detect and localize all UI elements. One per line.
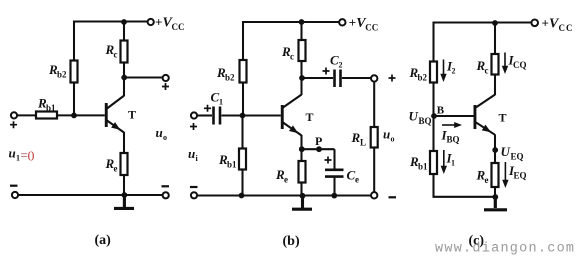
transistor collector diagonal (c) [476, 95, 495, 108]
wire Ce vertical lower (b) [333, 178, 335, 195]
minus sign output (a) [162, 185, 170, 187]
svg-text:P: P [315, 134, 322, 148]
label +Vcc (b) [349, 15, 379, 33]
ground symbol (a) [114, 196, 134, 208]
svg-text:CC: CC [559, 23, 574, 33]
node rail junction (a) [121, 19, 127, 25]
resistor Re (a) [121, 153, 128, 175]
svg-text:T: T [128, 108, 136, 122]
svg-text:L: L [360, 138, 366, 148]
svg-text:b1: b1 [227, 160, 237, 170]
wire emitter vertical (a) [123, 132, 125, 153]
capacitor C1 (b) [214, 107, 221, 125]
resistor Rc (b) [299, 40, 306, 61]
ground symbol (b) [292, 197, 312, 209]
wire emitter vertical (b) [300, 135, 302, 149]
wire top rail (b) [243, 21, 340, 23]
terminal output bottom circle (a) [163, 192, 169, 198]
resistor Re (c) [492, 163, 499, 187]
svg-text:e: e [485, 175, 489, 185]
svg-text:u: u [188, 146, 195, 161]
label UBQ (c) [409, 109, 432, 127]
wire bottom rail (b) [198, 194, 372, 196]
node P dot (b) [316, 146, 322, 152]
label =0 red (a) [21, 148, 35, 165]
resistor Rb1 (b) [239, 149, 246, 170]
label T (c) [499, 111, 507, 125]
label Rc (b) [281, 44, 294, 62]
node ground junction (a) [122, 192, 128, 198]
wire left vertical lower (a) [73, 83, 75, 117]
node rail junction (b) [299, 19, 305, 25]
terminal input circle (b) [191, 112, 197, 118]
resistor Rb2 (b) [240, 60, 247, 83]
wire Rc top to rail (c) [494, 22, 496, 55]
wire C2 to output (b) [342, 77, 371, 79]
terminal input bottom circle (a) [12, 192, 18, 198]
svg-text:o: o [391, 135, 395, 144]
svg-text:b1: b1 [418, 162, 428, 172]
wire bottom link (c) [433, 196, 496, 198]
transistor emitter arrow (a) [111, 122, 122, 133]
caption (c) [469, 234, 485, 249]
label I1 (c) [446, 151, 456, 168]
terminal input circle (a) [11, 112, 17, 118]
node emitter junction (c) [492, 147, 498, 153]
label Rb1 (b) [218, 152, 237, 170]
current arrow ICQ (c) [502, 53, 508, 75]
label Rc (c) [476, 58, 489, 76]
node Rb1 rail junction (b) [239, 193, 245, 199]
transistor collector diagonal (b) [283, 95, 302, 108]
terminal Vcc circle (b) [339, 19, 345, 25]
label +Vcc (c) [542, 16, 574, 34]
resistor RL (b) [371, 127, 378, 148]
label Rb2 (b) [216, 65, 235, 83]
wire top rail (c) [433, 21, 532, 23]
node ground junction (b) [300, 193, 306, 199]
svg-text:u: u [9, 146, 16, 161]
svg-text:R: R [351, 130, 361, 145]
label Re (c) [476, 168, 489, 186]
svg-text:u: u [156, 125, 163, 140]
label UEQ (c) [501, 144, 524, 162]
wire left vertical upper (c) [432, 22, 434, 62]
current arrow IBQ (c) [442, 122, 462, 128]
wire collector vertical (c) [494, 75, 496, 96]
caption (a) [95, 233, 112, 248]
svg-text:b2: b2 [225, 73, 235, 83]
label +Vcc (a) [155, 15, 185, 33]
svg-text:c: c [114, 50, 118, 60]
resistor Rb2 (a) [71, 61, 78, 83]
svg-text:U: U [501, 144, 511, 159]
svg-text:b2: b2 [418, 73, 428, 83]
wire RL vertical lower (b) [373, 148, 375, 193]
wire input to Rb1 (a) [18, 114, 37, 116]
wire Rb1 vertical (c) [432, 119, 434, 198]
svg-text:CC: CC [365, 23, 378, 33]
minus sign output (b) [389, 196, 397, 198]
wire emitter node to Ce branch (b) [302, 148, 335, 150]
wire top rail (a) [73, 20, 148, 22]
terminal Vcc circle (a) [148, 19, 154, 25]
wire Rc top to rail (a) [123, 21, 125, 41]
wire emitter vertical (c) [494, 135, 496, 151]
wire Rb1 vertical (b) [241, 118, 243, 195]
svg-text:+: + [542, 16, 549, 31]
label P (b) [315, 134, 322, 148]
resistor Rb1 (a) [36, 112, 57, 119]
transistor emitter arrow (b) [289, 125, 300, 136]
wire left vertical mid (b) [242, 83, 244, 116]
current arrow I1 (c) [441, 150, 447, 174]
svg-text:CC: CC [172, 22, 185, 32]
resistor Re (b) [299, 161, 306, 183]
svg-text:e: e [355, 175, 359, 185]
svg-text:+: + [155, 15, 162, 30]
wire left vertical upper (b) [242, 21, 244, 60]
label I2 (c) [446, 59, 456, 76]
svg-text:1: 1 [16, 154, 20, 163]
wire Re vertical (b) [300, 151, 302, 195]
plus sign C1 (b) [204, 105, 211, 112]
svg-text:T: T [499, 111, 507, 125]
node rail junction (c) [492, 20, 498, 26]
svg-text:T: T [306, 110, 314, 124]
wire input to C1 (b) [198, 114, 213, 116]
label Rb1 (c) [409, 154, 428, 172]
svg-text:U: U [409, 109, 419, 124]
wire output tap (a) [126, 76, 163, 78]
current arrow I2 (c) [440, 60, 446, 83]
wire Rc top to rail (b) [300, 21, 302, 40]
svg-text:2: 2 [452, 67, 456, 76]
label uo (a) [156, 125, 168, 142]
label u1 (a) [9, 146, 21, 163]
svg-text:+: + [349, 15, 356, 30]
resistor Rb2 (c) [430, 62, 437, 83]
label uo (b) [383, 127, 395, 144]
label ui (b) [188, 146, 199, 163]
label Re (b) [275, 167, 288, 185]
svg-text:2: 2 [339, 61, 343, 70]
wire bottom rail (a) [18, 194, 163, 196]
label Rb1 (a) [37, 96, 56, 114]
wire base (b) [243, 114, 281, 116]
plus sign input (b) [190, 123, 197, 130]
svg-text:0: 0 [28, 150, 35, 165]
wire Re to rail (a) [123, 175, 125, 195]
svg-text:1: 1 [219, 98, 223, 107]
svg-text:www.diangon.com: www.diangon.com [435, 242, 575, 257]
node base junction (a) [71, 113, 77, 119]
caption (b) [283, 234, 300, 249]
node Ce rail junction (b) [331, 193, 337, 199]
label Rb2 (c) [409, 65, 428, 83]
svg-text:c: c [290, 52, 294, 62]
transistor T bar (c) [474, 105, 477, 129]
node B junction (c) [431, 113, 437, 119]
current arrow IEQ (c) [502, 162, 508, 188]
transistor emitter arrow (c) [482, 125, 493, 135]
label RL (b) [351, 130, 367, 148]
node collector output junction (a) [121, 75, 127, 81]
resistor Rb1 (c) [430, 151, 437, 174]
svg-text:b2: b2 [57, 70, 67, 80]
transistor T bar (b) [281, 105, 284, 129]
wire C1 to base node (b) [222, 114, 243, 116]
wire left vertical mid (c) [432, 83, 434, 117]
plus sign output (a) [162, 83, 169, 90]
svg-text:u: u [383, 127, 390, 142]
wire base (c) [434, 115, 474, 117]
transistor collector diagonal (a) [107, 96, 124, 109]
svg-text:BQ: BQ [419, 116, 432, 126]
node collector output junction (b) [299, 75, 305, 81]
wire left vertical upper (a) [73, 21, 75, 61]
svg-text:1: 1 [451, 159, 455, 168]
terminal output top circle (a) [163, 75, 169, 81]
capacitor C2 (b) [335, 70, 341, 88]
label Rc (a) [105, 42, 118, 60]
svg-text:(a): (a) [95, 233, 112, 248]
svg-text:i: i [196, 154, 199, 163]
label C1 (b) [211, 90, 224, 107]
node ground junction (c) [492, 194, 498, 200]
label C2 (b) [330, 53, 343, 70]
wire Ce vertical upper (b) [333, 149, 335, 169]
svg-text:e: e [114, 164, 118, 174]
plus sign input (a) [10, 121, 17, 128]
terminal output top circle (b) [371, 75, 377, 81]
svg-text:o: o [163, 133, 167, 142]
svg-text:BQ: BQ [447, 135, 460, 145]
wire Re vertical (c) [494, 152, 496, 198]
minus sign input (a) [10, 185, 18, 187]
terminal input bottom circle (b) [191, 192, 197, 198]
wire base (a) [57, 114, 105, 116]
label T (b) [306, 110, 314, 124]
label T (a) [128, 108, 136, 122]
wire collector vertical (a) [123, 63, 125, 97]
svg-text:EQ: EQ [511, 152, 524, 162]
node base junction (b) [240, 113, 246, 119]
watermark www.diangon.com [435, 242, 575, 257]
resistor Rc (c) [492, 54, 499, 75]
label Re (a) [105, 156, 118, 174]
label B (c) [437, 104, 445, 116]
svg-text:CQ: CQ [513, 60, 527, 70]
svg-text:e: e [284, 175, 288, 185]
terminal Vcc circle (c) [531, 20, 538, 27]
svg-text:(b): (b) [283, 234, 300, 249]
wire RL vertical upper (b) [373, 82, 375, 127]
wire collector vertical (b) [300, 61, 302, 95]
capacitor Ce (b) [325, 170, 344, 177]
transistor T bar (a) [105, 103, 108, 127]
resistor Rc (a) [121, 41, 128, 63]
wire collector to C2 (b) [304, 77, 333, 79]
plus sign C2 (b) [323, 68, 330, 75]
svg-text:B: B [437, 104, 445, 116]
terminal output bottom circle (b) [371, 192, 377, 198]
ground symbol (c) [484, 198, 507, 210]
label IBQ (c) [441, 128, 460, 145]
transistor emitter diagonal (c) [476, 122, 495, 135]
label IEQ (c) [508, 163, 527, 181]
node emitter junction (b) [299, 146, 305, 152]
minus sign input (b) [190, 186, 198, 188]
plus sign Ce (b) [325, 157, 332, 164]
label ICQ (c) [508, 53, 527, 71]
label Ce (b) [347, 168, 360, 185]
plus sign output (b) [389, 75, 396, 82]
transistor emitter diagonal (b) [283, 123, 302, 136]
svg-text:EQ: EQ [514, 171, 527, 181]
svg-text:b1: b1 [46, 103, 56, 113]
svg-text:c: c [485, 66, 489, 76]
transistor emitter diagonal (a) [107, 121, 124, 133]
label Rb2 (a) [48, 62, 67, 80]
